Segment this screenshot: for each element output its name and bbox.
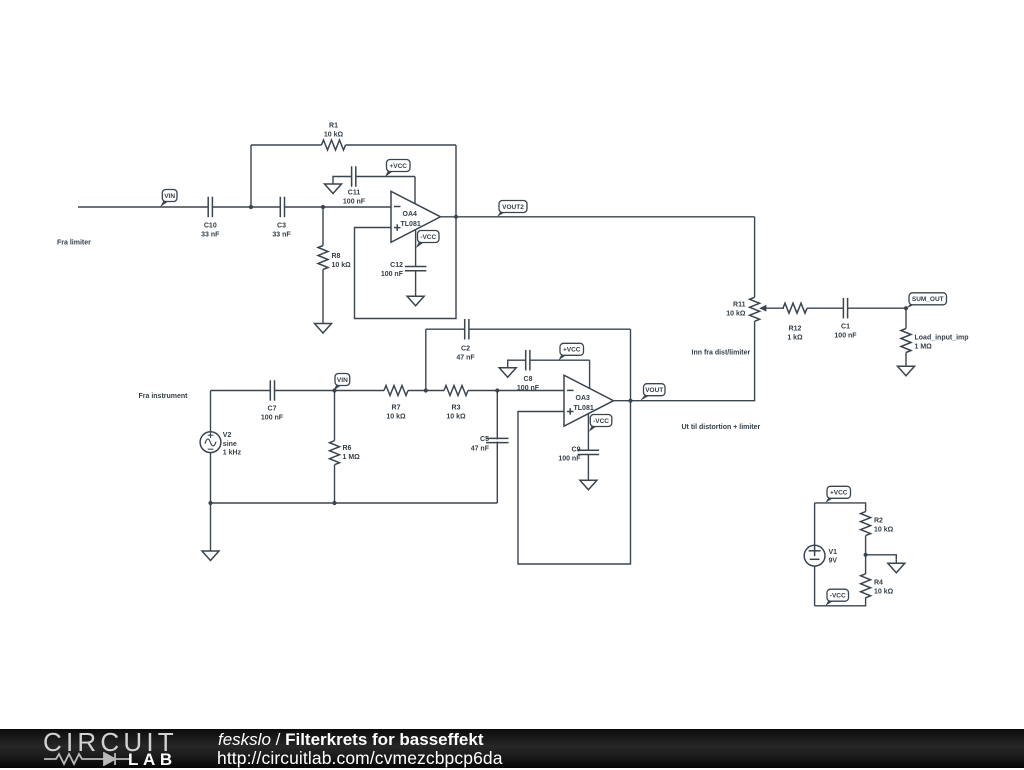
svg-text:+VCC: +VCC [563,347,581,354]
wire +VCC supply pin of OA3 [589,360,591,388]
logo resistor-diode symbol [44,752,130,766]
svg-text:C3: C3 [277,222,286,229]
svg-text:C7: C7 [268,406,277,413]
ground below V2 [210,547,212,551]
svg-text:+VCC: +VCC [830,490,848,497]
net flag VOUT [640,395,651,401]
capacitor C2 [464,319,466,340]
node SUM_OUT junction [904,306,908,310]
wire down to output node [455,145,457,217]
svg-text:10 kΩ: 10 kΩ [446,414,466,421]
svg-text:1 MΩ: 1 MΩ [915,343,933,350]
wire -VCC pin of OA4 to C12 [415,230,417,267]
svg-text:OA3: OA3 [576,395,591,402]
svg-text:R6: R6 [343,445,352,452]
svg-text:100 nF: 100 nF [834,332,857,339]
wire R6 to ground rail [334,465,336,503]
svg-text:100 nF: 100 nF [381,271,404,278]
svg-text:-VCC: -VCC [830,593,846,600]
wire down to potentiometer R11 [754,217,756,297]
potentiometer R11 [750,297,760,321]
svg-text:OA4: OA4 [403,211,418,218]
wire V1 positive lead [814,503,816,545]
wire V1 bottom rail [815,597,866,606]
svg-text:V1: V1 [829,549,838,556]
svg-text:Load_input_imp: Load_input_imp [915,334,969,341]
svg-text:TL081: TL081 [574,405,594,412]
ground below load resistor [905,362,907,366]
net flag +VCC (OA4) [385,171,394,178]
svg-text:10 kΩ: 10 kΩ [332,262,352,269]
net flag -VCC (OA3) [589,426,598,432]
wire C11 to +VCC pin [356,176,415,178]
svg-text:1 kHz: 1 kHz [223,450,242,457]
wiper arrow of R11 [765,307,784,309]
capacitor C12 [405,266,427,268]
wire to C5 [496,391,498,440]
svg-text:sine: sine [223,441,237,448]
resistor Load_input_imp [901,329,911,353]
svg-text:C8: C8 [524,376,533,383]
ground below R8 [322,320,324,324]
svg-text:33 nF: 33 nF [201,231,220,238]
wire load resistor to ground [905,353,907,363]
wire to load resistor [905,308,907,328]
wire OA3 output to R11 bottom [614,400,755,402]
resistor R8 [318,246,328,270]
op-amp OA3 TL081 [564,375,614,426]
svg-text:R1: R1 [329,123,338,130]
capacitor C8 [525,350,527,371]
svg-text:VIN: VIN [337,377,348,384]
svg-text:Fra instrument: Fra instrument [139,393,189,400]
source V2 sine [200,432,221,453]
capacitor C5 [486,437,509,439]
wire up to C2 branch [425,329,427,390]
wire V2 top [210,391,212,432]
wire R12 to C1 [807,307,844,309]
svg-text:9V: 9V [829,558,838,565]
svg-text:10 kΩ: 10 kΩ [386,414,406,421]
wire V1 negative lead [814,566,816,606]
wire OA4 output to R11 [441,216,755,218]
resistor R2 [861,512,871,536]
wire feedback OA4 output to non-inverting input [355,217,457,319]
wire R2 to R4 [865,536,867,575]
svg-text:VIN: VIN [164,193,175,200]
resistor R1 [322,140,346,150]
node junction C7/R6/R7 [332,388,336,392]
wire to R1 [251,144,322,146]
wire C11 left to ground drop [333,177,352,178]
capacitor C10 [207,197,209,218]
svg-text:10 kΩ: 10 kΩ [874,589,894,596]
ground below C12 [415,292,417,296]
wire to R8 [322,207,324,246]
svg-text:100 nF: 100 nF [343,199,366,206]
wire C2 to output branch [469,328,631,330]
wire -VCC pin of OA3 to C9 [587,414,589,450]
ground at C8 [507,361,509,368]
wire C3 to op-amp inverting input [285,206,392,208]
svg-text:R3: R3 [452,405,461,412]
node mid supply junction [864,553,868,557]
svg-text:1 MΩ: 1 MΩ [343,454,361,461]
capacitor C11 [351,166,353,187]
wire C8 left to ground drop [508,360,526,361]
wire V2 to C7 [211,390,271,392]
wire R8 to ground [322,270,324,320]
svg-text:SUM_OUT: SUM_OUT [912,296,944,303]
net flag +VCC (OA3) [559,354,568,360]
node output OA4 / R1 / feedback [454,215,458,219]
node OA3 output junction [628,399,632,403]
source V1 battery 9V [804,545,825,566]
wire input to C10 [78,206,208,208]
node junction C10/C3/R1 [249,205,253,209]
svg-text:100 nF: 100 nF [558,456,581,463]
capacitor C9 [578,449,600,451]
svg-text:C5: C5 [480,436,489,443]
svg-text:+VCC: +VCC [389,163,407,170]
ground below C9 [587,476,589,480]
svg-text:1 kΩ: 1 kΩ [787,335,803,342]
svg-text:R7: R7 [392,405,401,412]
svg-text:10 kΩ: 10 kΩ [874,527,894,534]
wire R11 bottom to VOUT rail [754,321,756,401]
net flag VIN (stage 2) [334,385,343,391]
svg-text:10 kΩ: 10 kΩ [726,310,746,317]
svg-text:C1: C1 [841,323,850,330]
resistor R7 [384,386,408,396]
net flag SUM_OUT [907,304,917,308]
svg-text:R12: R12 [789,326,802,333]
svg-text:Fra limiter: Fra limiter [57,239,91,246]
wire C12 to ground [415,271,417,293]
resistor R12 [783,303,807,313]
svg-text:10 kΩ: 10 kΩ [324,132,344,139]
svg-text:100 nF: 100 nF [517,385,540,392]
wire mid supply to ground [866,555,897,560]
resistor R4 [861,574,871,598]
ground mid supply [895,559,897,563]
wire C1 to SUM_OUT node [848,307,906,309]
svg-text:47 nF: 47 nF [471,445,490,452]
net flag -VCC (OA4) [416,242,425,249]
svg-text:C11: C11 [348,190,361,197]
svg-text:-VCC: -VCC [593,418,609,425]
svg-text:Inn fra dist/limiter: Inn fra dist/limiter [692,350,751,357]
wire to C2 [426,328,465,330]
svg-text:VOUT: VOUT [645,387,663,394]
capacitor C7 [269,380,271,401]
node junction R7/R3/C2 [424,388,428,392]
footer caption line 1 [218,730,484,750]
svg-text:R11: R11 [733,301,746,308]
op-amp OA4 TL081 [391,191,441,242]
wire feedback OA3 output to non-inverting input [518,401,631,564]
svg-text:47 nF: 47 nF [456,354,475,361]
net flag +VCC (V1) [825,497,834,503]
wire C9 to ground [587,454,589,476]
svg-text:-VCC: -VCC [420,234,436,241]
wire R7 to R3 [408,390,444,392]
node junction V2/ground rail [208,501,212,505]
wire +VCC supply pin of OA4 [414,177,416,204]
capacitor C1 [842,298,844,319]
svg-text:C12: C12 [390,262,403,269]
footer bar [0,729,1024,768]
footer caption line 2 (plain text, not a link) [217,748,503,769]
svg-text:R2: R2 [874,518,883,525]
svg-text:C9: C9 [572,447,581,454]
wire to R6 [334,391,336,441]
resistor R3 [444,386,468,396]
wire V1 top rail [815,503,866,512]
svg-text:100 nF: 100 nF [261,415,284,422]
CircuitLab logo wordmark [43,727,178,758]
wire R3 to OA3 inverting input [468,390,564,392]
wire up to R1 [250,145,252,207]
wire down to OA3 output node [630,329,632,401]
svg-text:R8: R8 [332,253,341,260]
wire ground rail stage 2 [211,453,498,503]
net flag -VCC (V1) [825,600,834,606]
svg-text:Ut til distortion + limiter: Ut til distortion + limiter [682,424,761,431]
svg-text:C10: C10 [204,222,217,229]
resistor R6 [330,441,340,465]
wire C5 to ground rail [496,442,498,503]
net flag VIN (stage 1 input) [160,201,170,208]
ground at C11 [332,178,334,185]
wire C7 to R7 [275,390,385,392]
capacitor C3 [279,197,281,218]
svg-text:V2: V2 [223,432,232,439]
wire rail to ground [210,503,212,547]
node junction C3/R8 [321,205,325,209]
svg-text:R4: R4 [874,580,883,587]
svg-text:C2: C2 [461,345,470,352]
wire R1 to output branch [346,144,457,146]
wire C10 to C3 [212,206,280,208]
wire C8 to +VCC pin of OA3 [530,359,590,361]
svg-text:33 nF: 33 nF [272,231,291,238]
svg-text:VOUT2: VOUT2 [502,204,524,211]
net flag VOUT2 [497,212,507,217]
node junction R6/ground rail [332,501,336,505]
node junction R3/C5/OA3 [495,388,499,392]
svg-text:TL081: TL081 [401,221,421,228]
